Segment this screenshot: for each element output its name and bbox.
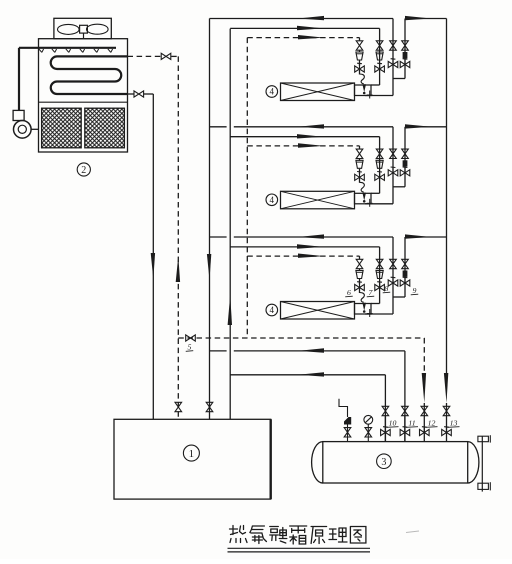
wire: dashed riser to condenser bbox=[177, 56, 179, 419]
valve 11 shutoff bbox=[402, 406, 409, 415]
pipe E3-p2 (liquid drop) bbox=[379, 247, 381, 304]
pressure gauge PG bbox=[364, 415, 373, 424]
evaporator E2 liquid line bbox=[230, 136, 379, 138]
fan blade right bbox=[87, 24, 109, 34]
svg-text:3: 3 bbox=[381, 457, 386, 468]
level gauge end ticks bbox=[489, 435, 491, 442]
evaporator E3 liquid line bbox=[230, 246, 379, 248]
flow arrow left bbox=[298, 234, 324, 238]
pressure gauge shutoff bbox=[365, 428, 372, 437]
svg-text:5: 5 bbox=[188, 343, 192, 352]
svg-text:12: 12 bbox=[428, 419, 436, 428]
evaporator E2 header bbox=[355, 193, 372, 204]
spray water riser bbox=[18, 48, 20, 111]
strainer on E2-p1 bbox=[356, 160, 363, 168]
safety valve SV stem bbox=[347, 425, 349, 442]
valve V2 (condenser drain valve) bbox=[134, 91, 144, 97]
wire: suction riser (manifold) bbox=[209, 19, 211, 420]
receiver tank U3 bbox=[323, 442, 468, 483]
pipe E1-p3 (suction drop) bbox=[392, 19, 394, 96]
strainer on E3-p2 bbox=[376, 271, 383, 279]
strainer on E1-p1 bbox=[356, 52, 363, 60]
flow arrow down on suction riser bbox=[207, 254, 211, 280]
casing divider bbox=[39, 101, 128, 103]
flow arrow right bbox=[405, 16, 431, 20]
regulating valve E3-p3 bbox=[388, 280, 398, 286]
svg-text:6: 6 bbox=[347, 288, 351, 297]
regulating valve E2-p2 bbox=[375, 174, 385, 180]
wire: right hot-gas collector riser bbox=[446, 19, 448, 378]
title: hot fluorine defrost principle diagram bbox=[230, 526, 366, 545]
unit U1 right edge (thick) bbox=[270, 419, 272, 499]
regulating valve E1-p2 bbox=[375, 66, 385, 72]
svg-text:1: 1 bbox=[189, 448, 195, 460]
label 2 bbox=[77, 163, 90, 176]
valve V1 (condenser hot gas valve) bbox=[161, 53, 171, 59]
svg-text:9: 9 bbox=[413, 286, 417, 295]
fan hub bbox=[80, 25, 88, 33]
svg-text:4: 4 bbox=[270, 305, 275, 315]
spray pump P1 bbox=[13, 121, 31, 139]
valve 10 shutoff bbox=[382, 406, 389, 415]
wire: defrost dashed riser bbox=[246, 38, 248, 338]
pipe E2-p2 (liquid drop) bbox=[379, 137, 381, 194]
svg-text:2: 2 bbox=[81, 165, 86, 176]
svg-text:8: 8 bbox=[385, 284, 389, 293]
fan shaft bbox=[83, 33, 85, 39]
flow arrow right bbox=[297, 26, 323, 30]
level gauge top fitting bbox=[478, 436, 489, 442]
regulating valve E3-p2 bbox=[375, 284, 385, 290]
fan housing bbox=[54, 18, 111, 38]
regulating valve E2-p3 bbox=[388, 170, 398, 176]
strainer on E3-p1 bbox=[356, 271, 363, 279]
wire: valve 13 stem bbox=[446, 403, 448, 442]
valve 13 (angle valve at tank) bbox=[442, 429, 452, 435]
wire: condenser liquid outlet bbox=[128, 93, 134, 95]
flow arrow down into valve 13 bbox=[444, 373, 448, 403]
evaporator E2 suction line bbox=[210, 126, 227, 128]
expansion distributor on E3 bbox=[360, 293, 365, 303]
evaporator E3 defrost dashed line bbox=[247, 255, 359, 257]
valve V5 bbox=[186, 335, 196, 341]
fan blade left bbox=[58, 24, 80, 34]
safety valve lever arm bbox=[339, 399, 348, 417]
valve 12 shutoff bbox=[421, 406, 428, 415]
pipe E1-p2 (liquid drop) bbox=[379, 28, 381, 85]
expansion distributor on E2 bbox=[360, 182, 365, 192]
pipe E3-p3 (suction drop) bbox=[392, 237, 394, 314]
thermo tap on E3 bbox=[369, 309, 371, 317]
solenoid on E1-p4 bbox=[403, 52, 408, 58]
pump housing bbox=[13, 110, 24, 120]
evaporator E1 hot-gas branch to collector bbox=[405, 18, 447, 20]
wire: drop to valve 10 bbox=[384, 375, 386, 442]
regulating valve E2-p1 bbox=[355, 174, 365, 180]
wire: valve 12 stem bbox=[423, 403, 425, 442]
compressor unit U1 bbox=[114, 419, 271, 499]
flow arrow down bbox=[151, 253, 155, 279]
wire: receiver line A (to valve 11) bbox=[210, 350, 227, 352]
pipe E3-p4 (hot gas drop) bbox=[404, 237, 406, 297]
regulating valve E1-p1 bbox=[355, 66, 365, 72]
flow arrow left bbox=[298, 124, 324, 128]
evaporator E3 header bbox=[355, 304, 372, 315]
evaporator E1 header bbox=[355, 85, 372, 96]
level gauge column bbox=[481, 436, 483, 491]
evaporator E2 hot-gas branch to collector bbox=[405, 126, 447, 128]
svg-text:11: 11 bbox=[408, 419, 415, 428]
valve 13 shutoff bbox=[443, 406, 450, 415]
flow arrow right bbox=[405, 234, 431, 238]
wire: condenser dashed outlet (hot gas in) bbox=[128, 55, 161, 57]
wire: liquid supply riser bbox=[229, 29, 231, 420]
label 1 bbox=[183, 445, 199, 461]
label 4 (unit E1) bbox=[266, 86, 278, 98]
evaporator E3 suction line bbox=[210, 236, 227, 238]
spray header bbox=[19, 47, 116, 49]
evaporator E1 defrost dashed line bbox=[247, 37, 359, 39]
evaporator E3 hot-gas branch to collector bbox=[405, 236, 447, 238]
fill panel right bbox=[85, 108, 125, 148]
title underline double bbox=[228, 547, 371, 549]
flow arrow left on line B bbox=[298, 372, 324, 376]
condenser coil bbox=[51, 56, 128, 94]
pipe E1-p1 (dashed feed drop) bbox=[359, 38, 361, 41]
pipe E3-p1 (dashed feed drop) bbox=[359, 256, 361, 259]
thermo tap on E2 bbox=[369, 199, 371, 207]
thermo tap on E1 bbox=[369, 91, 371, 99]
wire: dashed defrost main (to receiver) bbox=[178, 337, 424, 339]
flow arrow right bbox=[297, 244, 323, 248]
wire: receiver line B (to valve 10) bbox=[230, 374, 385, 376]
evaporator E1 coil body bbox=[281, 83, 355, 101]
flow arrow right bbox=[297, 134, 323, 138]
evaporator E2 defrost dashed line bbox=[247, 145, 359, 147]
svg-text:10: 10 bbox=[389, 419, 397, 428]
flow arrow right bbox=[298, 35, 324, 39]
wire: valve 11 stem bbox=[404, 416, 406, 442]
scan smudge bbox=[406, 531, 419, 533]
label 4 (unit E2) bbox=[266, 194, 278, 206]
expansion distributor on E1 bbox=[360, 74, 365, 84]
flow arrow left on line A bbox=[298, 348, 324, 352]
strainer on E1-p2 bbox=[376, 52, 383, 60]
solenoid on E3-p4 bbox=[403, 271, 408, 277]
regulating valve E2-p4 bbox=[400, 170, 410, 176]
evaporator E1 liquid line bbox=[230, 27, 379, 29]
pipe E2-p4 (hot gas drop) bbox=[404, 127, 406, 187]
condenser casing bbox=[39, 39, 128, 152]
wire: drop to valve 11 bbox=[404, 351, 406, 442]
wire: liquid riser down to unit 1 bbox=[152, 94, 154, 419]
tank right cap bbox=[468, 442, 479, 483]
wire: valve 10 stem bbox=[384, 416, 386, 442]
svg-text:13: 13 bbox=[450, 419, 458, 428]
shutoff valves row on E2 bbox=[356, 149, 363, 158]
evaporator E3 coil body bbox=[281, 302, 355, 320]
flow arrow left bbox=[298, 16, 324, 20]
tank left cap bbox=[312, 442, 323, 483]
evaporator E1 suction line bbox=[210, 18, 394, 20]
svg-text:4: 4 bbox=[270, 87, 275, 97]
pipe E1-p4 (hot gas drop) bbox=[404, 19, 406, 79]
flow arrow right bbox=[298, 143, 324, 147]
valve V4 bbox=[206, 402, 213, 411]
label 4 (unit E3) bbox=[266, 304, 278, 316]
flow arrow right bbox=[405, 124, 431, 128]
valve V3 bbox=[175, 402, 182, 411]
pressure gauge stem bbox=[367, 424, 369, 441]
valve 11 (angle valve at tank) bbox=[400, 429, 410, 435]
wire: dashed drop to valve 12 bbox=[423, 338, 425, 372]
shutoff valves row on E1 bbox=[356, 41, 363, 50]
regulating valve E1-p3 bbox=[388, 61, 398, 67]
regulating valve E3-p1 bbox=[355, 284, 365, 290]
safety valve shutoff bbox=[344, 428, 351, 437]
pipe E2-p1 (dashed feed drop) bbox=[359, 146, 361, 149]
pipe E2-p3 (suction drop) bbox=[392, 127, 394, 204]
spray nozzles bbox=[39, 49, 42, 53]
regulating valve E3-p4 bbox=[400, 280, 410, 286]
evaporator E2 coil body bbox=[281, 191, 355, 209]
flow arrow down into valve 12 bbox=[422, 373, 426, 403]
condenser unit U2 (evaporative condenser) bbox=[13, 18, 127, 176]
fill panel left bbox=[42, 108, 82, 148]
solenoid on E2-p4 bbox=[403, 160, 408, 166]
regulating valve E1-p4 bbox=[400, 61, 410, 67]
flow arrow right bbox=[298, 254, 324, 258]
pump suction pipe bbox=[31, 128, 38, 130]
shutoff valves row on E3 bbox=[356, 259, 363, 268]
safety valve body bbox=[344, 417, 351, 425]
strainer on E2-p2 bbox=[376, 160, 383, 168]
flow arrow up bbox=[176, 256, 180, 282]
label 3 bbox=[377, 454, 392, 469]
valve 10 (angle valve at tank) bbox=[381, 429, 391, 435]
level gauge bottom fitting bbox=[478, 483, 489, 489]
svg-text:4: 4 bbox=[270, 195, 275, 205]
flow arrow up on liquid riser bbox=[228, 295, 232, 325]
valve 12 (angle valve at tank) bbox=[420, 429, 430, 435]
